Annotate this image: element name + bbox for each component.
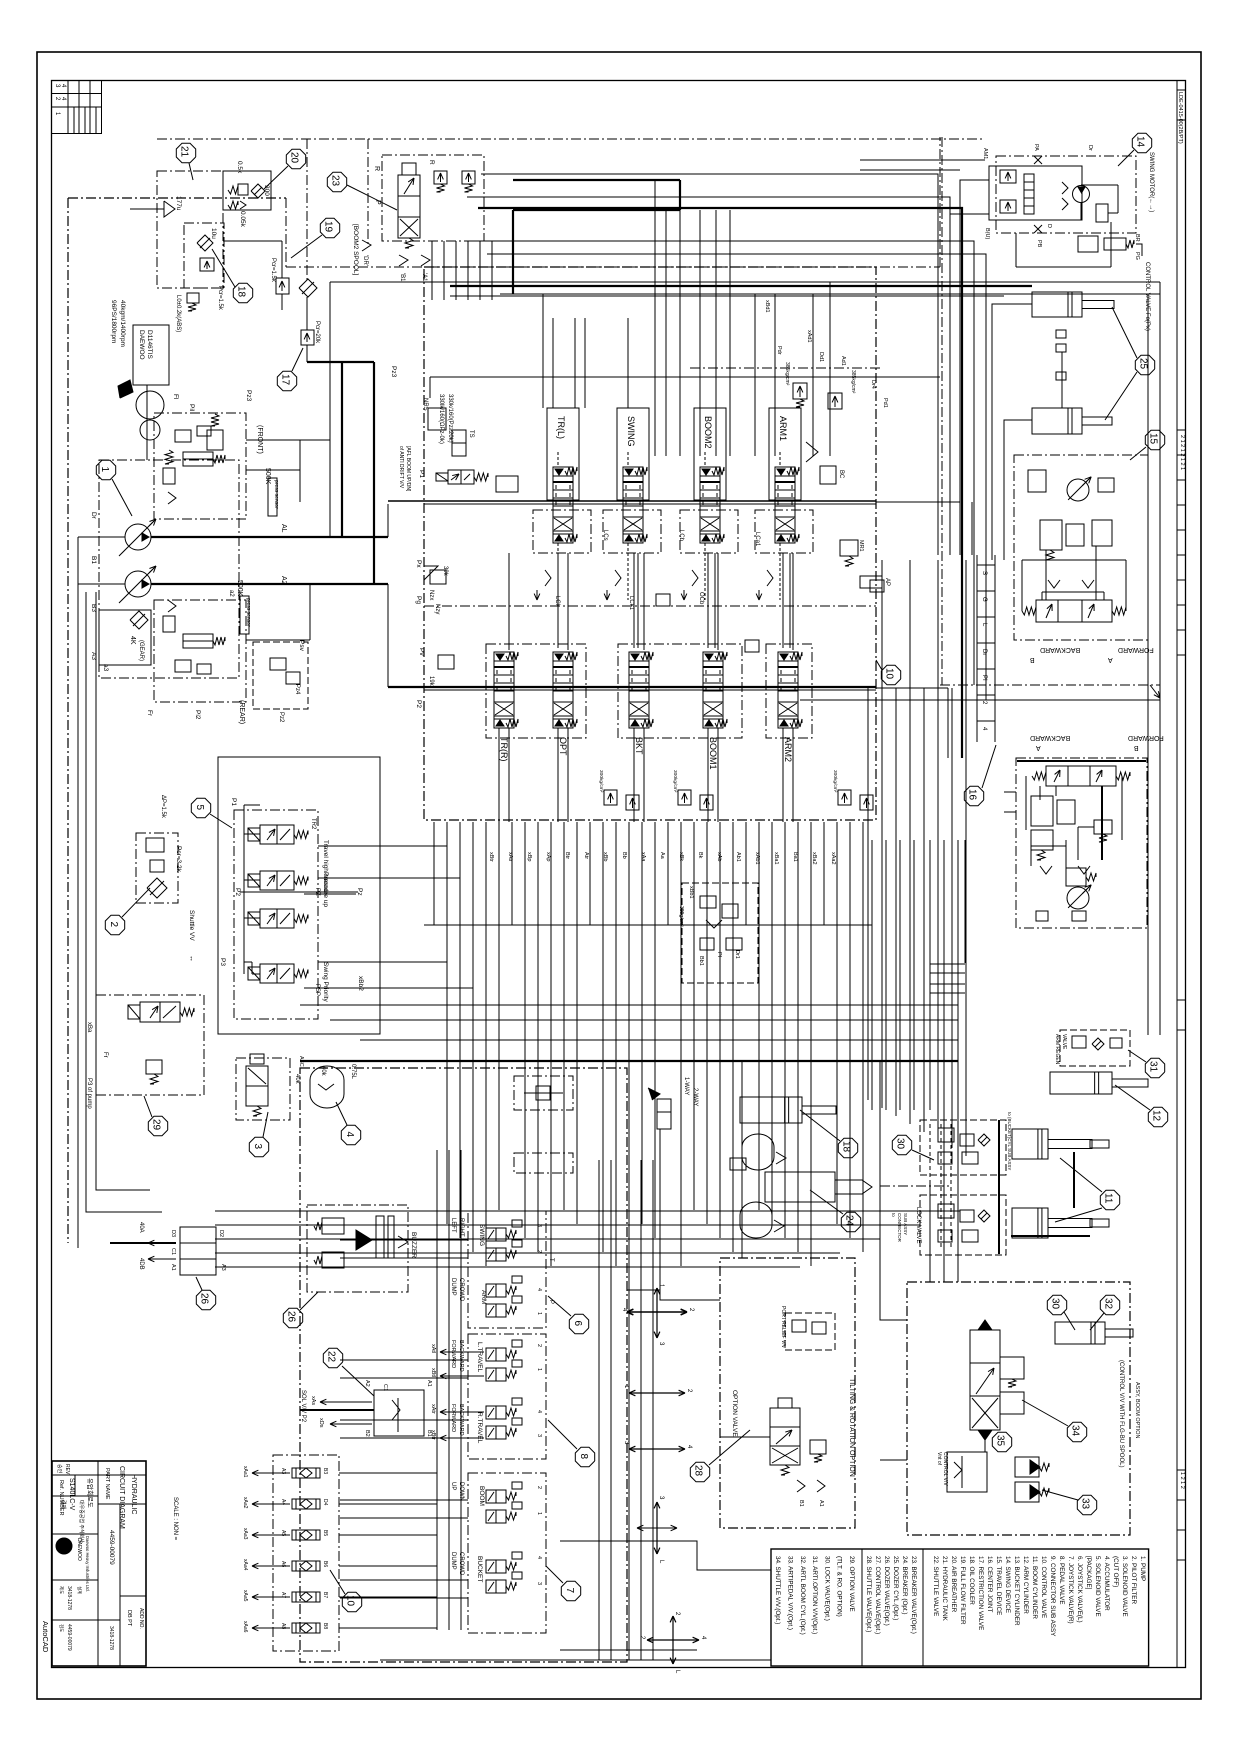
- svg-text:ARM REGEN: ARM REGEN: [1054, 1034, 1060, 1065]
- svg-text:4: 4: [536, 1288, 542, 1291]
- svg-text:PG: PG: [1134, 252, 1140, 260]
- svg-text:SCALE : NON =: SCALE : NON =: [172, 1497, 178, 1541]
- svg-text:xBa1: xBa1: [773, 852, 779, 865]
- buzzer relay 2: [322, 1252, 344, 1268]
- port relief 385 A: [793, 383, 807, 399]
- svg-text:330lk/160(ΩPz-0k): 330lk/160(ΩPz-0k): [438, 394, 444, 444]
- svg-text:3. SOLENOID VALVE: 3. SOLENOID VALVE: [1121, 1556, 1128, 1617]
- svg-text:21: 21: [179, 146, 190, 158]
- revision table: [52, 81, 102, 134]
- lock valve box 2: [920, 1195, 1006, 1255]
- pump dash-dot enclosure: [99, 460, 239, 678]
- svg-text:A6: A6: [280, 1561, 286, 1567]
- svg-text:G: G: [981, 597, 987, 602]
- svg-text:24. BREAKER (Opt.): 24. BREAKER (Opt.): [901, 1556, 908, 1614]
- svg-text:xBb1: xBb1: [688, 886, 694, 899]
- travel2 pilot web: [1030, 846, 1032, 866]
- svg-text:40A: 40A: [138, 1222, 144, 1233]
- heavy pilot supply elbow: [307, 361, 342, 363]
- svg-text:2: 2: [536, 1344, 542, 1347]
- balloon 33: [1077, 1495, 1096, 1514]
- svg-text:A1: A1: [818, 1500, 824, 1507]
- drawing number strip right edge: [1176, 81, 1178, 1669]
- travel1 counterbalance: [1040, 520, 1062, 550]
- valve section SWING drop lines: [627, 543, 629, 600]
- vertical pilot line forest: [433, 822, 435, 925]
- relief B: [462, 171, 475, 184]
- svg-text:B3: B3: [322, 1468, 328, 1474]
- svg-text:a2: a2: [228, 590, 234, 597]
- anchor DR: [362, 240, 371, 251]
- svg-text:TS: TS: [468, 430, 474, 438]
- heavy return line top: [513, 179, 680, 181]
- svg-text:30: 30: [895, 1138, 906, 1150]
- lock valve heavy gallery: [998, 1120, 1000, 1254]
- port A8/B8: [292, 1623, 320, 1633]
- svg-text:Atr: Atr: [583, 852, 589, 859]
- svg-text:Pcr=1.5k: Pcr=1.5k: [217, 286, 223, 311]
- svg-text:(REAR): (REAR): [238, 700, 245, 724]
- svg-text:33. ARTIPEDAL V/V.(Opt.): 33. ARTIPEDAL V/V.(Opt.): [787, 1556, 794, 1630]
- svg-text:Px: Px: [415, 560, 422, 568]
- TS throttle: [452, 430, 466, 456]
- svg-text:of ANTI DRIFT V/V: of ANTI DRIFT V/V: [398, 446, 404, 489]
- valve section TR(L) frame: [547, 408, 579, 500]
- svg-text:Ref. NUMBER: Ref. NUMBER: [58, 1480, 64, 1515]
- title block grid: [97, 1461, 99, 1666]
- valve section TR(R) spool body: [494, 661, 514, 719]
- balloon 35: [992, 1432, 1011, 1451]
- svg-text:UP: UP: [450, 1482, 456, 1490]
- LC check symbols between rows: [545, 570, 551, 586]
- svg-text:Pz2: Pz2: [278, 712, 284, 723]
- svg-text:LCs: LCs: [602, 530, 608, 541]
- boom cyl2 fittings: [1056, 372, 1066, 380]
- arm cylinder: [1012, 1208, 1048, 1238]
- valve section ARM1 spool body: [775, 476, 795, 534]
- buzzer relay 1: [322, 1218, 344, 1234]
- svg-text:39k: 39k: [442, 566, 448, 577]
- balloon 22: [323, 1348, 342, 1367]
- direction cross full 1: [627, 1311, 657, 1313]
- lock valve pilot dashes: [929, 1124, 931, 1250]
- svg-text:xAa4: xAa4: [242, 1559, 248, 1571]
- svg-text:FORWARD: FORWARD: [450, 1404, 456, 1432]
- svg-text:PI: PI: [716, 952, 722, 958]
- svg-text:BUCKET: BUCKET: [476, 1556, 483, 1582]
- section drops to CV box bottom: [498, 728, 500, 822]
- pilot dash-dot verticals: [306, 139, 308, 282]
- svg-text:제도: 제도: [58, 1586, 65, 1594]
- svg-text:28: 28: [693, 1465, 704, 1477]
- anti-drift valve block: [496, 476, 518, 492]
- solenoid valve SV4: [260, 964, 294, 983]
- balloon 11: [1100, 1190, 1119, 1209]
- valve section ARM1 pilot dash box: [755, 510, 813, 553]
- parts list divider 2: [922, 1549, 924, 1666]
- relief 0.05k: [228, 201, 238, 209]
- front reg second stage: [207, 430, 223, 450]
- negative control block: [682, 883, 758, 983]
- valve section TR(R) pilot cap top: [494, 652, 514, 661]
- direction v-arrow 4: [656, 1502, 658, 1528]
- svg-text:A3: A3: [220, 1264, 226, 1271]
- svg-text:1. PUMP: 1. PUMP: [1139, 1556, 1146, 1581]
- pump P1 (front): [125, 524, 151, 550]
- balloon 21: [176, 143, 195, 162]
- svg-text:SWING MOTOR(←→): SWING MOTOR(←→): [1148, 152, 1154, 212]
- travel motor 2 dash-dot box: [1016, 758, 1147, 928]
- svg-text:REV: REV: [64, 1464, 70, 1475]
- jump vv control small box: [947, 1452, 987, 1492]
- joystick L dash-dot box: [468, 1211, 546, 1328]
- svg-text:LCb: LCb: [678, 530, 684, 542]
- swing make-up checks: [1062, 182, 1068, 194]
- balloon 4: [341, 1125, 360, 1144]
- svg-text:40kgm/1400rpm: 40kgm/1400rpm: [119, 300, 126, 347]
- svg-text:TILTING & ROTATION OPTION: TILTING & ROTATION OPTION: [848, 1378, 855, 1477]
- return bus 210: [513, 209, 680, 211]
- filter diamond: [147, 878, 167, 898]
- travel1 spool horizontal: [1036, 600, 1112, 622]
- valve section OPT pilot cap bottom: [553, 719, 573, 728]
- package inlet manifold: [243, 805, 245, 974]
- nested elbow bus top-right: [481, 174, 938, 555]
- valve section SWING frame: [617, 408, 649, 500]
- joystick R dash-dot box: [468, 1334, 546, 1459]
- svg-text:Fl: Fl: [172, 394, 179, 400]
- svg-text:B2: B2: [364, 1430, 370, 1437]
- balloon 2: [105, 915, 124, 934]
- balloon 30a: [892, 1135, 911, 1154]
- travel motor 1 dash-dot box: [1014, 455, 1148, 640]
- port strip stubs to joystick lines: [339, 1472, 437, 1474]
- svg-text:Bb: Bb: [621, 852, 627, 859]
- valve section TR(L) pilot cap top: [553, 467, 573, 476]
- svg-text:1: 1: [536, 1512, 542, 1515]
- svg-text:xAa5: xAa5: [242, 1590, 248, 1602]
- joystick R pilot valves Rtravel: [486, 1406, 506, 1419]
- svg-text:11. BOOM CYLINDER: 11. BOOM CYLINDER: [1031, 1556, 1038, 1619]
- svg-text:A4: A4: [280, 1499, 286, 1505]
- accumulator block box: [136, 833, 178, 903]
- bus drops to option: [930, 963, 965, 965]
- balloon 5: [191, 798, 210, 817]
- svg-text:Pi2: Pi2: [194, 710, 201, 720]
- cylinder 18: [740, 1097, 802, 1123]
- svg-text:Pcr=20k: Pcr=20k: [314, 321, 320, 344]
- port flag A1: [421, 255, 430, 266]
- svg-text:Dr4: Dr4: [870, 380, 876, 389]
- relief box solid: [223, 171, 271, 210]
- inner dash-dot box: [184, 223, 224, 288]
- grease cylinder 24: [765, 1172, 835, 1202]
- svg-text:Pil: Pil: [188, 404, 195, 412]
- small dash-dot box B: [514, 1153, 573, 1173]
- balloon 18 top: [233, 283, 252, 302]
- svg-text:to (BUCKET)CYL SUB ASSY: to (BUCKET)CYL SUB ASSY: [1007, 1112, 1012, 1170]
- balloon 32: [1100, 1295, 1119, 1314]
- balloon 24: [841, 1212, 860, 1231]
- filter 10u: [197, 235, 213, 251]
- accumulator 4: [310, 1066, 344, 1108]
- balloon 26b: [283, 1308, 302, 1327]
- svg-text:xAa2: xAa2: [242, 1497, 248, 1509]
- svg-text:14: 14: [1135, 136, 1146, 148]
- solenoid block dash-dot box: [382, 155, 484, 241]
- relief dP=1.5k: [146, 838, 164, 852]
- mid dash-dot gallery: [424, 605, 876, 607]
- svg-text:AM1: AM1: [982, 148, 988, 159]
- cylinder 12 top right: [1050, 1072, 1112, 1094]
- bus elbow lines right-bottom: [1159, 282, 1161, 1035]
- CV body top line: [430, 376, 940, 378]
- svg-text:대우중공업 주식회사: 대우중공업 주식회사: [78, 1500, 85, 1543]
- svg-text:25: 25: [1138, 358, 1149, 370]
- svg-text:FORWARD: FORWARD: [1128, 734, 1164, 741]
- svg-text:3: 3: [536, 1224, 542, 1227]
- svg-text:[PACKAGE]: [PACKAGE]: [1085, 1556, 1092, 1590]
- svg-text:Pressure up: Pressure up: [322, 872, 329, 907]
- valve section ARM1 pilot cap top: [775, 467, 795, 476]
- svg-text:29. OPTION VALVE: 29. OPTION VALVE: [848, 1556, 855, 1612]
- port A7/B7: [292, 1592, 320, 1602]
- svg-text:B8: B8: [322, 1623, 328, 1629]
- cyl feed lines: [992, 304, 1032, 502]
- svg-text:press sensor: press sensor: [273, 480, 279, 509]
- svg-text:7. JOYSTICK VALVE(R): 7. JOYSTICK VALVE(R): [1067, 1556, 1074, 1624]
- parts list box: [771, 1549, 1149, 1666]
- valve section BOOM2 pilot cap bottom: [700, 534, 720, 543]
- svg-text:19. FULL FLOW FILTER: 19. FULL FLOW FILTER: [959, 1556, 966, 1625]
- balloon 19: [320, 218, 339, 237]
- buzzer dash-dot box: [307, 1205, 408, 1292]
- svg-text:Dr: Dr: [90, 512, 97, 520]
- option reliefs right: [1000, 1357, 1024, 1379]
- svg-text:PI: PI: [981, 675, 987, 681]
- package outputs to forest: [318, 845, 447, 847]
- option relief 2: [810, 1440, 826, 1454]
- option relief sub-block: [785, 1313, 835, 1350]
- svg-text:19: 19: [323, 221, 334, 233]
- svg-text:6. JOYSTICK VALVE(L): 6. JOYSTICK VALVE(L): [1076, 1556, 1083, 1623]
- svg-text:D4: D4: [322, 1499, 328, 1506]
- svg-text:18: 18: [841, 1141, 852, 1153]
- svg-text:8: 8: [578, 1454, 589, 1460]
- svg-text:7: 7: [564, 1588, 575, 1594]
- main pressure gallery P2: [388, 686, 876, 688]
- svg-text:40k: 40k: [294, 1074, 300, 1085]
- port A5/B5: [292, 1530, 320, 1540]
- port A6/B6: [292, 1561, 320, 1571]
- left solid trunk: [146, 385, 148, 460]
- swing feed lines: [960, 180, 989, 282]
- svg-text:28. SHUTTLE VALVE(Opt.): 28. SHUTTLE VALVE(Opt.): [865, 1556, 872, 1632]
- svg-text:1 2 1 2: 1 2 1 2: [1179, 1472, 1185, 1489]
- svg-text:18: 18: [236, 286, 247, 298]
- right dash-dot gallery: [940, 684, 1160, 686]
- svg-text:P2: P2: [234, 888, 241, 896]
- svg-text:10u: 10u: [210, 228, 217, 239]
- svg-text:31: 31: [1148, 1061, 1159, 1073]
- pedal valve dash-dot box: [468, 1473, 546, 1633]
- svg-text:Pcr=3.2k: Pcr=3.2k: [175, 846, 182, 873]
- svg-text:xBp: xBp: [526, 852, 532, 861]
- bottom horizontals: [380, 1659, 771, 1661]
- svg-text:S: S: [981, 571, 987, 575]
- svg-text:D2: D2: [218, 1230, 224, 1237]
- svg-text:ARM1: ARM1: [778, 416, 788, 441]
- svg-text:Swing Priority: Swing Priority: [322, 962, 329, 1002]
- tilting rotation option dash-dot box: [720, 1258, 855, 1528]
- accumulator A: [742, 1134, 774, 1170]
- port A4/D4: [292, 1499, 320, 1509]
- balloon 18: [838, 1138, 857, 1157]
- svg-text:OCb: OCb: [698, 592, 704, 605]
- svg-text:Bb1: Bb1: [698, 956, 704, 966]
- svg-text:A: A: [1108, 656, 1113, 663]
- svg-text:5. SOLENOID VALVE: 5. SOLENOID VALVE: [1094, 1556, 1101, 1617]
- right bundle verticals: [867, 688, 869, 1100]
- svg-text:Vnt of: Vnt of: [936, 1452, 942, 1466]
- travel2 motor circle: [1067, 887, 1089, 909]
- svg-text:xBtl: xBtl: [430, 1368, 436, 1377]
- supply bus 294: [500, 293, 1160, 295]
- option main valve: [770, 1408, 800, 1465]
- cyl rod interconnect heavy: [1073, 1152, 1075, 1208]
- balloon 30b: [1047, 1295, 1066, 1314]
- balloon 1: [96, 460, 115, 479]
- boom cylinder 1: [1032, 292, 1082, 317]
- svg-text:15. TRAVEL DEVICE: 15. TRAVEL DEVICE: [995, 1556, 1002, 1615]
- svg-text:17: 17: [280, 374, 291, 386]
- boom option dash-dot box: [907, 1282, 1130, 1535]
- svg-text:DAEWOO: DAEWOO: [138, 330, 145, 360]
- svg-text:3: 3: [536, 1582, 542, 1585]
- solenoid valve SV1: [260, 825, 294, 844]
- svg-text:22. SHUTTLE VALVE: 22. SHUTTLE VALVE: [932, 1556, 939, 1616]
- valve section TR(L) pilot cap bottom: [553, 534, 573, 543]
- balloon 16: [964, 786, 983, 805]
- pilot filter check diamond: [299, 279, 317, 297]
- svg-text:Nzy: Nzy: [434, 604, 440, 614]
- travel1 motor circle: [1067, 479, 1089, 501]
- svg-text:4. ACCUMULATOR: 4. ACCUMULATOR: [1103, 1556, 1110, 1611]
- svg-text:33: 33: [1080, 1498, 1091, 1510]
- valve section ARM2 pilot cap bottom: [778, 719, 798, 728]
- svg-text:2: 2: [108, 922, 119, 928]
- svg-text:CIRCUIT DIAGRAM: CIRCUIT DIAGRAM: [118, 1466, 125, 1529]
- svg-text:xAa: xAa: [640, 852, 646, 862]
- control valve dash-dot boundary: [424, 267, 876, 820]
- check valve small: [150, 860, 164, 872]
- trunk to bottom-left: [86, 592, 162, 1212]
- relief 177u symbol: [164, 201, 175, 217]
- svg-text:4DB: 4DB: [138, 1258, 144, 1270]
- svg-text:1: 1: [536, 1312, 542, 1315]
- small dash-dot box A: [514, 1076, 573, 1110]
- svg-text:xAtr: xAtr: [430, 1404, 436, 1414]
- swing anti-inversion valve: [1078, 236, 1098, 252]
- relief on 24: [730, 1158, 746, 1170]
- svg-text:Psv: Psv: [298, 640, 305, 652]
- svg-text:CONTROL VALVE Fo(Px): CONTROL VALVE Fo(Px): [1144, 262, 1150, 331]
- svg-text:VALVE: VALVE: [1061, 1034, 1067, 1050]
- long mid verticals: [654, 180, 656, 456]
- option spool valve vertical: [970, 1330, 1000, 1430]
- svg-text:21. HYDRAULIC TANK: 21. HYDRAULIC TANK: [941, 1556, 948, 1622]
- balloon 26a: [196, 1290, 215, 1309]
- svg-text:OPTION VALVE: OPTION VALVE: [731, 1390, 738, 1437]
- svg-text:ΔP=1.5k: ΔP=1.5k: [160, 795, 166, 819]
- pilot supply dash-dot box: [157, 171, 223, 288]
- svg-text:4K: 4K: [129, 636, 136, 645]
- svg-text:xBtr: xBtr: [488, 852, 494, 862]
- valve section SWING pilot cap bottom: [623, 534, 643, 543]
- svg-text:S140LC-V: S140LC-V: [68, 1478, 75, 1511]
- balloon 29: [148, 1116, 167, 1135]
- balloon 28: [690, 1462, 709, 1481]
- svg-text:to: to: [891, 1213, 896, 1217]
- boost check HV: [820, 466, 836, 484]
- svg-text:6: 6: [572, 1321, 583, 1327]
- CV top feeds: [542, 318, 544, 408]
- svg-text:B7: B7: [322, 1592, 328, 1598]
- relief Pcr block: [200, 258, 214, 271]
- mid bus 925: [424, 924, 872, 926]
- joystick wiring verticals: [436, 1150, 438, 1630]
- swing brake piston: [1096, 204, 1108, 222]
- svg-text:Daewoo Heavy Industries Ltd.: Daewoo Heavy Industries Ltd.: [85, 1536, 90, 1592]
- balloon 6: [569, 1314, 588, 1333]
- svg-text:P3 of pump: P3 of pump: [86, 1078, 92, 1109]
- svg-text:23. BREAKER VALVE(Opt.): 23. BREAKER VALVE(Opt.): [910, 1556, 917, 1634]
- connector box 26: [180, 1227, 216, 1275]
- svg-text:24: 24: [844, 1215, 855, 1227]
- relief A: [434, 171, 447, 184]
- swing port tick PB: [1034, 225, 1042, 233]
- svg-text:12. ARM CYLINDER: 12. ARM CYLINDER: [1022, 1556, 1029, 1614]
- port relief valves row mid: [656, 594, 670, 606]
- svg-text:2. PILOT FILTER: 2. PILOT FILTER: [1130, 1556, 1137, 1605]
- svg-text:ARM: ARM: [480, 1290, 487, 1304]
- relief small: [146, 1060, 162, 1074]
- svg-text:LCk: LCk: [554, 596, 560, 608]
- svg-text:AP: AP: [884, 578, 890, 586]
- svg-text:설계: 설계: [76, 1586, 83, 1594]
- option ports: [797, 1480, 805, 1492]
- travel2 check diamonds: [1040, 866, 1052, 874]
- svg-text:↔: ↔: [188, 955, 195, 962]
- svg-text:LDE-0415-00(2B/PT): LDE-0415-00(2B/PT): [1177, 92, 1183, 144]
- svg-text:C1: C1: [170, 1248, 176, 1255]
- svg-text:32. ARTL BOOM CYL.(Opt.): 32. ARTL BOOM CYL.(Opt.): [799, 1556, 806, 1635]
- valve section BKT pilot cap top: [629, 652, 649, 661]
- svg-text:'B1': 'B1': [399, 273, 405, 283]
- svg-text:3418-1278: 3418-1278: [66, 1586, 72, 1610]
- travel2 bottom fittings: [1036, 911, 1048, 921]
- svg-text:FORWARD: FORWARD: [450, 1340, 456, 1368]
- svg-text:TR2: TR2: [310, 818, 316, 830]
- svg-text:35: 35: [995, 1435, 1006, 1447]
- joystick R pilot valves Ltravel: [486, 1348, 506, 1361]
- svg-text:BR: BR: [1134, 234, 1140, 242]
- svg-text:BUZZER: BUZZER: [410, 1232, 417, 1258]
- direction h-arrow 3: [629, 1448, 657, 1450]
- svg-text:22: 22: [326, 1351, 337, 1363]
- svg-text:R.TRAVEL: R.TRAVEL: [476, 1412, 483, 1444]
- vertical dash-dot x942: [941, 137, 943, 685]
